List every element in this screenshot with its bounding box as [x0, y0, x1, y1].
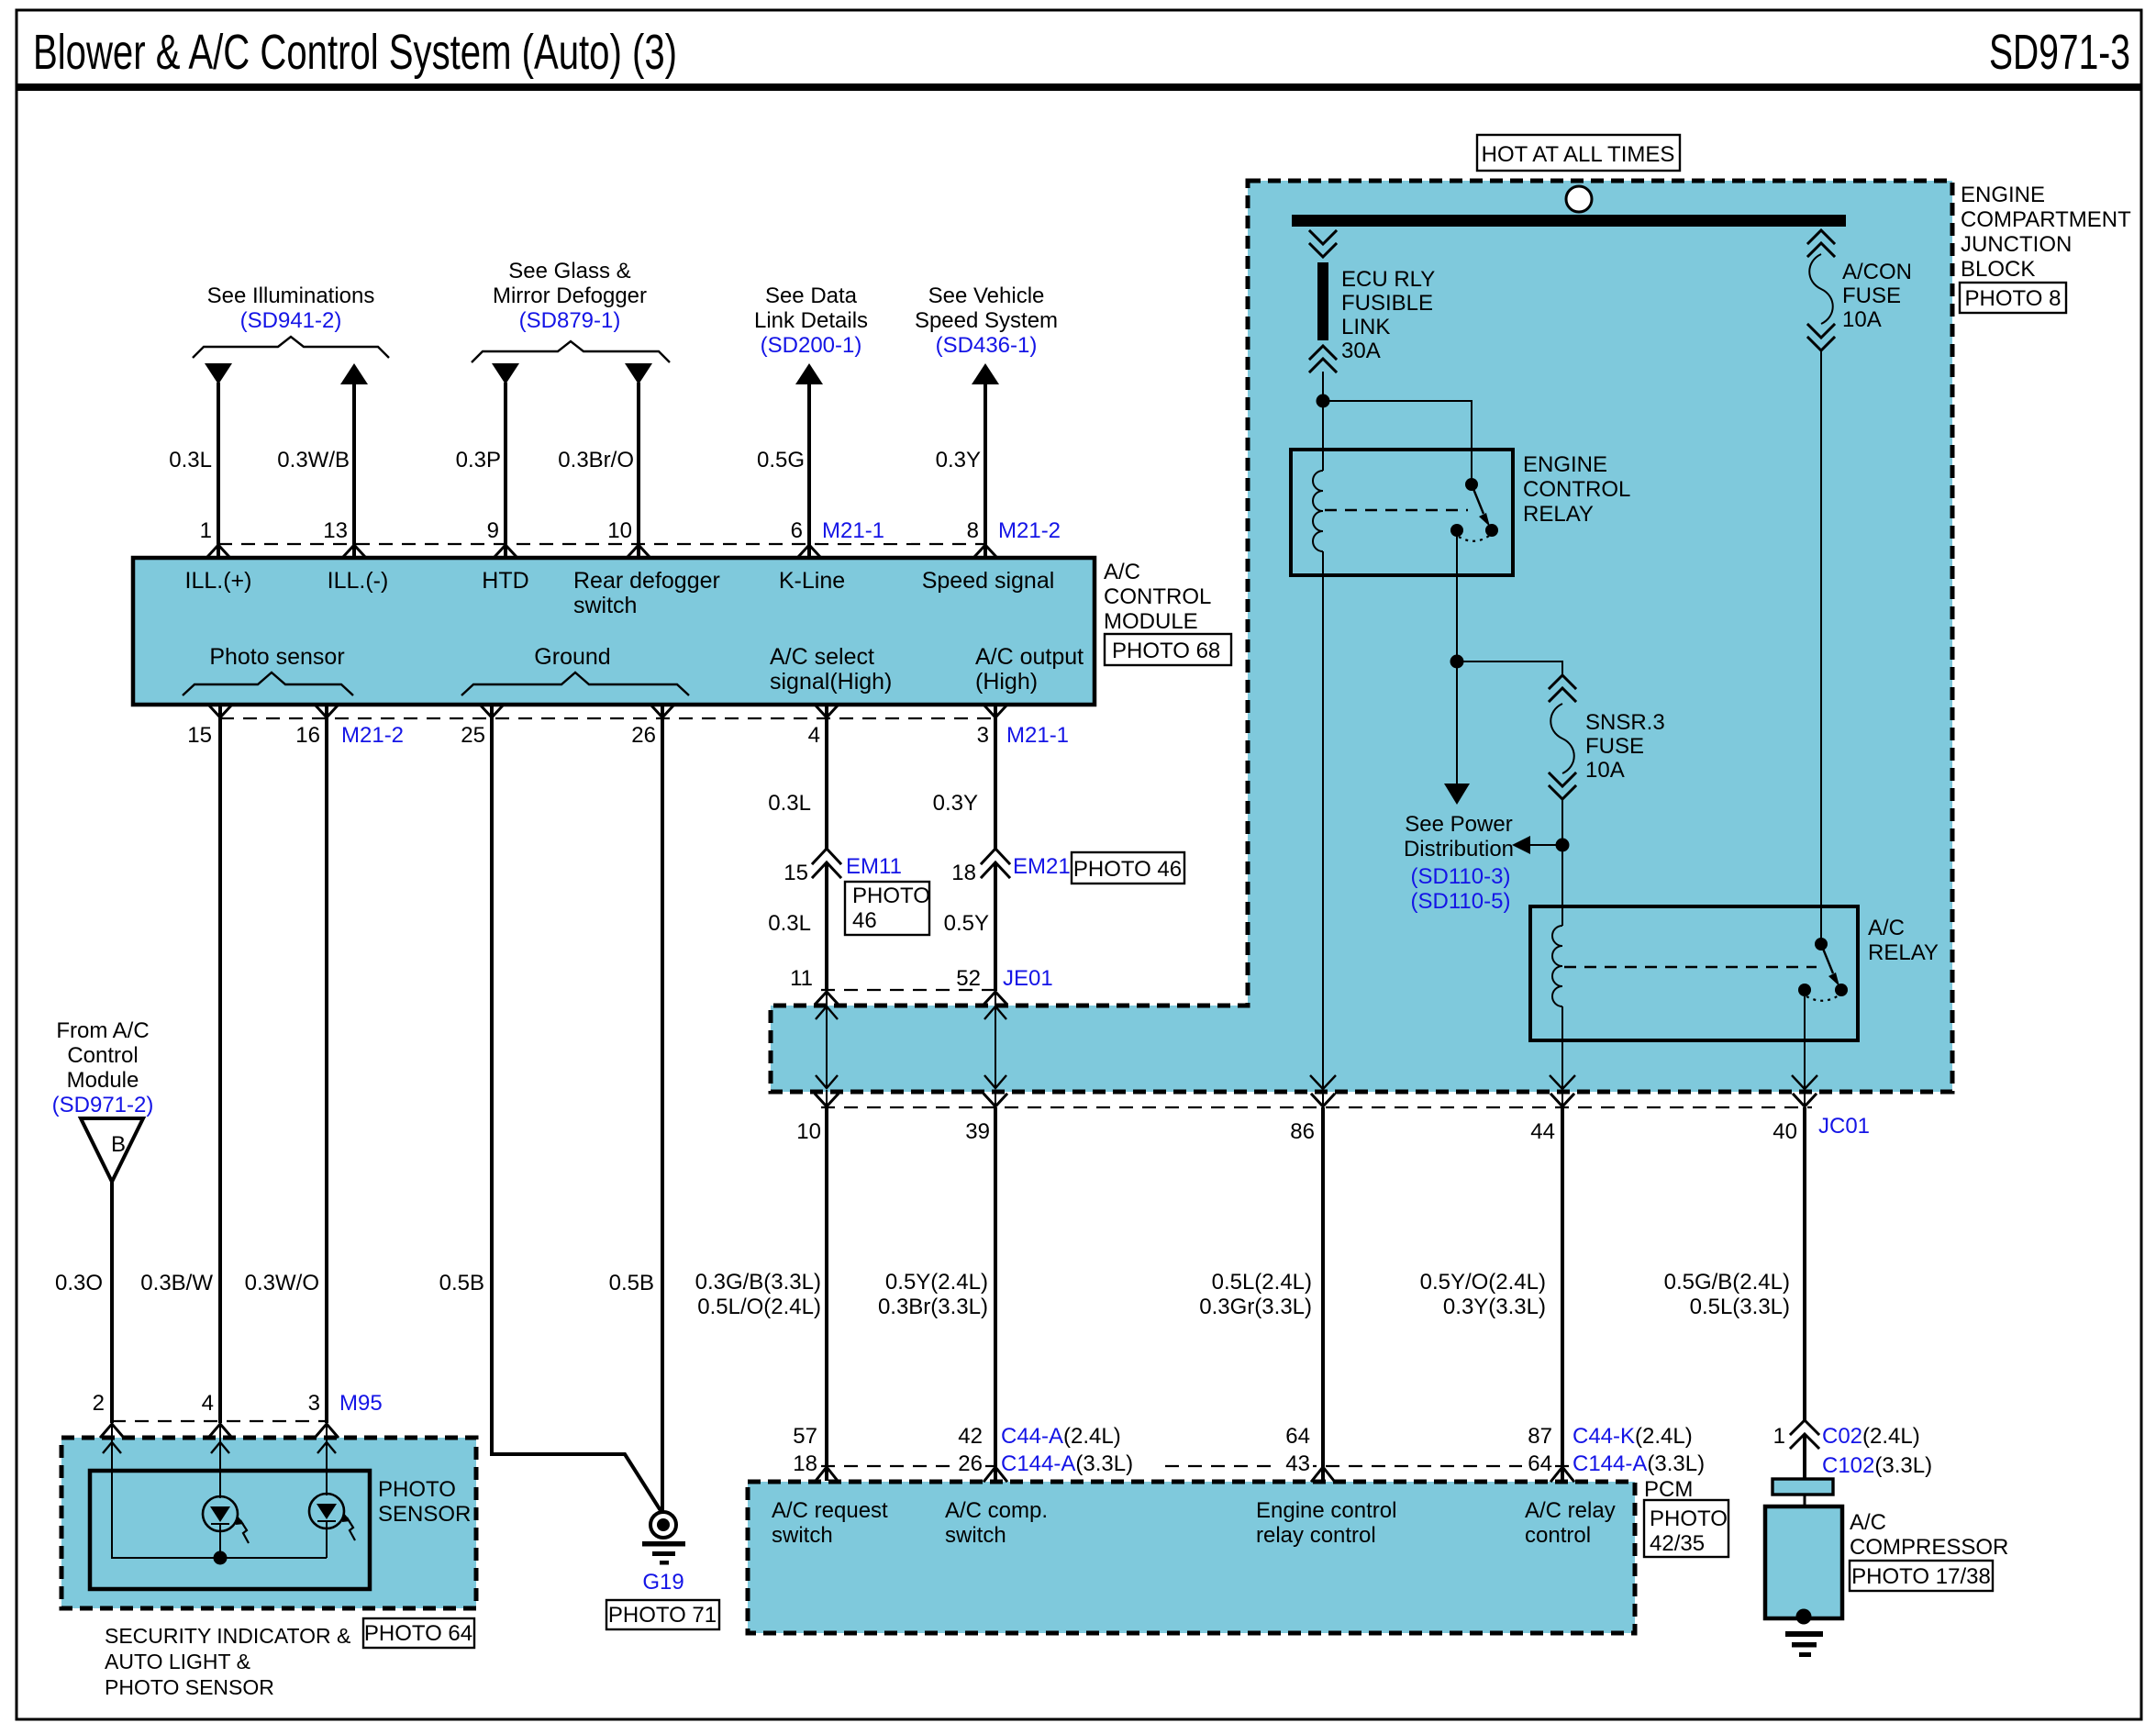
svg-text:3: 3 — [977, 723, 989, 748]
SNSR.3 fuse chevrons bottom — [1550, 773, 1575, 799]
svg-text:C144-A(3.3L): C144-A(3.3L) — [1573, 1451, 1705, 1476]
svg-text:ILL.(-): ILL.(-) — [328, 568, 389, 594]
connector triangle B — [81, 1118, 143, 1182]
PCM label A/C relay control — [1525, 1498, 1616, 1548]
svg-text:PHOTO 68: PHOTO 68 — [1112, 639, 1220, 663]
svg-text:ECU RLY: ECU RLY — [1341, 267, 1435, 292]
wire label 0.3G/B 0.5L/O — [695, 1270, 821, 1319]
svg-text:42: 42 — [958, 1424, 983, 1449]
SNSR.3 fuse label — [1585, 710, 1665, 783]
svg-text:16: 16 — [295, 723, 320, 748]
svg-text:A/C request: A/C request — [772, 1498, 888, 1523]
wire B to photo sensor pin2 — [110, 1182, 114, 1423]
svg-text:CONTROL: CONTROL — [1523, 477, 1630, 502]
svg-text:AUTO LIGHT &: AUTO LIGHT & — [105, 1650, 250, 1673]
wire protector to compressor — [1804, 1495, 1806, 1506]
connector names C44-K C144-A — [1573, 1424, 1705, 1476]
ECR coil — [1313, 471, 1323, 551]
svg-text:Engine control: Engine control — [1256, 1498, 1396, 1523]
module pin label rear defogger switch — [573, 568, 720, 618]
svg-text:86: 86 — [1290, 1119, 1315, 1144]
see data link details reference — [754, 283, 868, 358]
SNSR.3 fuse element — [1550, 704, 1574, 773]
title divider bar — [17, 83, 2141, 91]
svg-text:64: 64 — [1285, 1424, 1310, 1449]
svg-text:4: 4 — [808, 723, 820, 748]
photodiode LED1 — [203, 1496, 249, 1558]
svg-text:LINK: LINK — [1341, 315, 1390, 339]
svg-text:0.3Gr(3.3L): 0.3Gr(3.3L) — [1199, 1295, 1312, 1319]
photo 17/38 box — [1850, 1561, 1993, 1591]
SNSR.3 fuse chevrons top — [1550, 675, 1575, 701]
svg-text:(SD879-1): (SD879-1) — [519, 308, 621, 333]
wire stubs across JC01 edge — [827, 991, 1805, 1107]
svg-text:M21-1: M21-1 — [822, 518, 884, 543]
connector dashed line JC01 — [821, 1106, 1812, 1108]
junction dot power distribution — [1556, 839, 1570, 852]
svg-text:FUSE: FUSE — [1842, 283, 1901, 308]
svg-text:Speed signal: Speed signal — [922, 568, 1055, 594]
junction dot SNSR feed — [1450, 655, 1464, 669]
svg-text:PHOTO: PHOTO — [378, 1477, 456, 1502]
connector names C02 C102 — [1822, 1424, 1932, 1478]
svg-text:4: 4 — [202, 1391, 214, 1416]
svg-text:FUSIBLE: FUSIBLE — [1341, 291, 1433, 316]
svg-text:PHOTO 64: PHOTO 64 — [364, 1621, 472, 1646]
svg-text:15: 15 — [783, 861, 808, 885]
A/C relay box — [1530, 906, 1858, 1040]
svg-text:0.3Br(3.3L): 0.3Br(3.3L) — [878, 1295, 988, 1319]
inner chevron photo sensor pin3 — [317, 1442, 336, 1453]
svg-text:A/CON: A/CON — [1842, 260, 1912, 284]
svg-text:Ground: Ground — [534, 644, 610, 670]
svg-text:0.3P: 0.3P — [456, 448, 501, 472]
svg-text:52: 52 — [956, 966, 981, 991]
junction block feedthrough wire 52-39 — [984, 1006, 1006, 1088]
svg-text:2: 2 — [93, 1391, 105, 1416]
svg-text:1: 1 — [1773, 1424, 1785, 1449]
svg-text:C144-A(3.3L): C144-A(3.3L) — [1001, 1451, 1133, 1476]
svg-text:13: 13 — [323, 518, 348, 543]
svg-text:SD971-3: SD971-3 — [1989, 25, 2130, 80]
chevron PCM pin87 — [1551, 1467, 1573, 1481]
svg-text:10: 10 — [607, 518, 632, 543]
svg-text:0.5Y: 0.5Y — [944, 911, 989, 936]
A/CON fuse label — [1842, 260, 1912, 332]
svg-text:Speed System: Speed System — [915, 308, 1058, 333]
power feed circle — [1566, 186, 1592, 212]
see glass & mirror defogger reference — [493, 259, 647, 333]
arrow down pin1 — [205, 363, 232, 384]
svg-text:18: 18 — [951, 861, 976, 885]
chevron JC01 pin40 — [1794, 1095, 1816, 1106]
photodiode LED2 — [309, 1494, 355, 1558]
svg-text:6: 6 — [791, 518, 803, 543]
PCM label A/C comp switch — [945, 1498, 1048, 1548]
svg-text:See Glass &: See Glass & — [508, 259, 630, 283]
svg-text:M21-2: M21-2 — [341, 723, 404, 748]
svg-text:C44-K(2.4L): C44-K(2.4L) — [1573, 1424, 1693, 1449]
svg-text:From A/C: From A/C — [56, 1018, 149, 1043]
svg-text:Module: Module — [67, 1068, 139, 1093]
A/C relay coil — [1552, 926, 1562, 1006]
connector EM21 chevrons — [982, 849, 1009, 877]
thermal protector — [1773, 1479, 1833, 1495]
svg-text:0.3W/O: 0.3W/O — [245, 1271, 319, 1295]
svg-text:switch: switch — [772, 1523, 833, 1548]
svg-text:0.5B: 0.5B — [439, 1271, 484, 1295]
photo 68 box — [1105, 634, 1231, 665]
connector dashed line PCM — [821, 1465, 1569, 1467]
from A/C control module reference — [52, 1018, 154, 1117]
svg-text:BLOCK: BLOCK — [1961, 257, 2035, 282]
svg-text:(SD200-1): (SD200-1) — [761, 333, 862, 358]
svg-text:See Illuminations: See Illuminations — [207, 283, 375, 308]
svg-text:0.3Y(3.3L): 0.3Y(3.3L) — [1443, 1295, 1546, 1319]
svg-text:K-Line: K-Line — [779, 568, 845, 594]
pin numbers 64 43 — [1285, 1424, 1310, 1476]
svg-text:COMPRESSOR: COMPRESSOR — [1850, 1535, 2008, 1560]
svg-text:1: 1 — [200, 518, 212, 543]
chevron M95 pin4 — [209, 1424, 231, 1437]
photo sensor unit box (dashed cyan) — [61, 1438, 476, 1608]
svg-text:A/C output: A/C output — [975, 644, 1084, 670]
chevron JE01 pin52 — [984, 992, 1006, 1004]
svg-text:0.5Y/O(2.4L): 0.5Y/O(2.4L) — [1420, 1270, 1546, 1295]
svg-text:0.3Y: 0.3Y — [936, 448, 981, 472]
A/CON fuse chevrons top — [1808, 230, 1834, 256]
svg-text:JC01: JC01 — [1818, 1114, 1870, 1139]
svg-text:M95: M95 — [339, 1391, 383, 1416]
svg-text:MODULE: MODULE — [1104, 609, 1198, 634]
svg-text:EM21: EM21 — [1013, 854, 1071, 879]
wire junction to power distribution arrow — [1456, 661, 1458, 784]
svg-text:18: 18 — [793, 1451, 817, 1476]
svg-text:A/C relay: A/C relay — [1525, 1498, 1616, 1523]
photo 71 box — [606, 1600, 719, 1629]
svg-text:26: 26 — [631, 723, 656, 748]
PCM label A/C request switch — [772, 1498, 888, 1548]
chevron pin9 — [495, 545, 517, 557]
module side label A/C CONTROL MODULE — [1104, 560, 1211, 634]
svg-text:CONTROL: CONTROL — [1104, 584, 1211, 609]
power bus bar — [1292, 215, 1846, 227]
ECU RLY fusible link chevrons bottom — [1310, 346, 1336, 372]
svg-text:PHOTO: PHOTO — [852, 884, 930, 908]
wire pin2 inside sensor — [112, 1438, 327, 1558]
ECU RLY fusible link label — [1341, 267, 1435, 363]
wire 10 to PCM pin57 — [825, 1107, 828, 1481]
wire 44 to PCM pin87 — [1561, 1107, 1564, 1481]
A/CON fuse chevrons bottom — [1808, 325, 1834, 350]
svg-text:0.3Y: 0.3Y — [933, 791, 978, 816]
wire A/C relay contact to pin40 — [1804, 996, 1806, 1088]
chevron PCM pin42 — [984, 1467, 1006, 1481]
svg-text:SNSR.3: SNSR.3 — [1585, 710, 1665, 735]
svg-text:relay control: relay control — [1256, 1523, 1376, 1548]
photo sensor label — [378, 1477, 471, 1527]
arrow down pin10 — [625, 363, 652, 384]
svg-text:64: 64 — [1528, 1451, 1552, 1476]
connector names C44-A C144-A — [1001, 1424, 1133, 1476]
svg-text:HTD: HTD — [482, 568, 528, 594]
wire module pin16 to M95 pin3 — [325, 705, 328, 1423]
svg-text:0.3L: 0.3L — [768, 791, 811, 816]
svg-text:RELAY: RELAY — [1868, 940, 1939, 965]
chevron PCM pin64 — [1312, 1467, 1334, 1481]
photo 46 box EM11 — [845, 882, 930, 935]
svg-text:0.3L: 0.3L — [768, 911, 811, 936]
arrow wire40 at block edge — [1792, 1075, 1817, 1089]
svg-text:Mirror Defogger: Mirror Defogger — [493, 283, 647, 308]
svg-text:25: 25 — [461, 723, 485, 748]
svg-text:30A: 30A — [1341, 339, 1381, 363]
A/C relay internal dashed line — [1564, 966, 1817, 968]
svg-text:0.3W/B: 0.3W/B — [277, 448, 350, 472]
svg-text:JUNCTION: JUNCTION — [1961, 232, 2072, 257]
A/C relay label — [1868, 916, 1939, 965]
svg-text:0.3L: 0.3L — [169, 448, 212, 472]
svg-text:SENSOR: SENSOR — [378, 1502, 471, 1527]
chevron pin6 — [798, 545, 820, 557]
arrow down pin9 — [492, 363, 519, 384]
svg-text:Blower & A/C Control System (A: Blower & A/C Control System (Auto) (3) — [33, 25, 677, 80]
svg-text:A/C comp.: A/C comp. — [945, 1498, 1048, 1523]
svg-text:M21-1: M21-1 — [1006, 723, 1069, 748]
svg-text:A/C: A/C — [1104, 560, 1140, 584]
wire pin1 ILL(+) — [217, 383, 220, 557]
chevron pin8 — [974, 545, 996, 557]
svg-text:C44-A(2.4L): C44-A(2.4L) — [1001, 1424, 1121, 1449]
chevron JC01 pin44 — [1551, 1095, 1573, 1106]
chevron pin10 — [628, 545, 650, 557]
wire pin9 HTD — [504, 383, 507, 557]
chevron JE01 pin11 — [816, 992, 838, 1004]
A/C relay switch — [1798, 938, 1848, 1001]
photo 8 box — [1960, 283, 2066, 313]
svg-text:control: control — [1525, 1523, 1591, 1548]
svg-text:A/C: A/C — [1850, 1510, 1886, 1535]
svg-text:(High): (High) — [975, 669, 1038, 695]
wire module pin3 to EM21 — [994, 705, 997, 850]
compressor ground symbol — [1785, 1631, 1823, 1657]
wire ECR contact down to junction — [1456, 530, 1458, 661]
svg-text:PHOTO SENSOR: PHOTO SENSOR — [105, 1675, 274, 1699]
wire ECR coil to pin86 — [1322, 551, 1324, 1088]
ECR internal dashed line — [1325, 509, 1468, 511]
module label A/C select signal(High) — [770, 644, 892, 695]
svg-text:SECURITY INDICATOR &: SECURITY INDICATOR & — [105, 1624, 350, 1648]
connector dashed line M21 top — [218, 543, 985, 545]
svg-text:0.5L(2.4L): 0.5L(2.4L) — [1212, 1270, 1312, 1295]
module label A/C output (High) — [975, 644, 1084, 695]
chevron pin3 — [984, 706, 1006, 717]
PCM label engine control relay control — [1256, 1498, 1396, 1548]
svg-text:Control: Control — [67, 1043, 138, 1068]
wire module pin26 ground 0.5B — [661, 705, 664, 1511]
pin numbers 87 64 — [1528, 1424, 1552, 1476]
svg-text:See Vehicle: See Vehicle — [928, 283, 1045, 308]
wire module pin4 to EM11 — [825, 705, 828, 850]
svg-text:43: 43 — [1285, 1451, 1310, 1476]
svg-text:40: 40 — [1773, 1119, 1797, 1144]
svg-text:JE01: JE01 — [1003, 966, 1053, 991]
svg-text:0.3B/W: 0.3B/W — [140, 1271, 213, 1295]
svg-text:A/C: A/C — [1868, 916, 1905, 940]
svg-text:57: 57 — [793, 1424, 817, 1449]
brace photo sensor — [183, 672, 353, 695]
svg-text:PCM: PCM — [1644, 1477, 1693, 1502]
photo 46 box EM21 — [1072, 852, 1184, 884]
wire module pin15 to M95 pin4 — [218, 705, 222, 1423]
svg-text:15: 15 — [187, 723, 212, 748]
svg-text:Photo sensor: Photo sensor — [209, 644, 344, 670]
svg-text:RELAY: RELAY — [1523, 502, 1594, 527]
wire junction to SNSR fuse — [1457, 661, 1562, 677]
wire junction to ECR switch — [1323, 401, 1472, 479]
svg-text:See Power: See Power — [1405, 812, 1512, 837]
see illuminations reference — [207, 283, 375, 333]
engine compartment junction block label — [1961, 183, 2131, 282]
svg-text:COMPARTMENT: COMPARTMENT — [1961, 207, 2131, 232]
svg-text:Rear defogger: Rear defogger — [573, 568, 720, 594]
svg-text:PHOTO: PHOTO — [1650, 1506, 1728, 1531]
svg-text:42/35: 42/35 — [1650, 1531, 1705, 1556]
arrow wire86 at block edge — [1310, 1075, 1336, 1089]
svg-text:0.5G/B(2.4L): 0.5G/B(2.4L) — [1664, 1270, 1790, 1295]
connector C02 chevrons — [1791, 1420, 1818, 1448]
wire A/CON fuse to A/C relay switch — [1820, 350, 1822, 944]
svg-text:26: 26 — [958, 1451, 983, 1476]
photo sensor inner box — [90, 1471, 370, 1589]
wire EM21 to JE01 pin52 — [994, 864, 997, 991]
svg-text:G19: G19 — [642, 1570, 683, 1595]
svg-text:PHOTO 71: PHOTO 71 — [608, 1603, 717, 1628]
svg-text:PHOTO 46: PHOTO 46 — [1073, 857, 1182, 882]
wire 40 to compressor connector — [1803, 1107, 1806, 1420]
engine control relay box — [1291, 450, 1513, 575]
svg-text:ENGINE: ENGINE — [1961, 183, 2045, 207]
svg-text:0.3O: 0.3O — [55, 1271, 103, 1295]
svg-text:87: 87 — [1528, 1424, 1552, 1449]
svg-text:ENGINE: ENGINE — [1523, 452, 1607, 477]
A/CON fuse element — [1809, 254, 1833, 324]
junction dot LED1 to bus — [214, 1551, 228, 1565]
arrow up pin8 — [972, 363, 999, 384]
arrow up pin13 — [340, 363, 368, 384]
wire pin6 K-line — [807, 383, 811, 557]
svg-text:switch: switch — [573, 593, 637, 618]
inner chevron photo sensor pin2 — [103, 1442, 121, 1453]
svg-text:signal(High): signal(High) — [770, 669, 892, 695]
chevron pin1 — [207, 545, 229, 557]
svg-text:C102(3.3L): C102(3.3L) — [1822, 1453, 1932, 1478]
svg-text:C02(2.4L): C02(2.4L) — [1822, 1424, 1920, 1449]
svg-text:FUSE: FUSE — [1585, 734, 1644, 759]
svg-text:9: 9 — [487, 518, 499, 543]
connector EM11 chevrons — [813, 849, 840, 877]
svg-text:(SD110-5): (SD110-5) — [1411, 889, 1511, 914]
chevron M95 pin3 — [316, 1424, 338, 1437]
chevron JC01 pin86 — [1312, 1095, 1334, 1106]
svg-text:Distribution: Distribution — [1404, 837, 1514, 861]
photo 42/35 box — [1644, 1500, 1728, 1557]
svg-text:44: 44 — [1530, 1119, 1555, 1144]
svg-text:ILL.(+): ILL.(+) — [185, 568, 252, 594]
svg-text:(SD110-3): (SD110-3) — [1411, 864, 1511, 889]
svg-text:0.3G/B(3.3L): 0.3G/B(3.3L) — [695, 1270, 821, 1295]
svg-text:10A: 10A — [1842, 307, 1882, 332]
junction block feedthrough wire 11-10 — [816, 1006, 838, 1088]
see vehicle speed system reference — [915, 283, 1058, 358]
svg-text:0.5Y(2.4L): 0.5Y(2.4L) — [885, 1270, 988, 1295]
PCM box (dashed cyan) — [748, 1482, 1635, 1633]
inner chevron photo sensor pin4 — [211, 1442, 229, 1453]
pin numbers 57 18 — [793, 1424, 817, 1476]
svg-text:switch: switch — [945, 1523, 1006, 1548]
chevron pin13 — [343, 545, 365, 557]
svg-text:11: 11 — [790, 966, 813, 991]
wire label 0.5Y/O 0.3Y — [1420, 1270, 1546, 1319]
connector dashed line M21 bottom — [220, 717, 995, 719]
chevron M95 pin2 — [101, 1424, 123, 1437]
chevron PCM pin57 — [816, 1467, 838, 1481]
arrow wire44 at block edge — [1550, 1075, 1575, 1089]
svg-text:10: 10 — [796, 1119, 821, 1144]
chevron pin15 — [209, 706, 231, 717]
wire pin8 speed signal — [984, 383, 987, 557]
wire 86 to PCM pin64 — [1321, 1107, 1325, 1481]
svg-text:0.5L/O(2.4L): 0.5L/O(2.4L) — [697, 1295, 821, 1319]
wire label 0.5G/B 0.5L — [1664, 1270, 1790, 1319]
hot at all times box — [1477, 135, 1680, 171]
svg-text:(SD436-1): (SD436-1) — [936, 333, 1038, 358]
svg-text:(SD941-2): (SD941-2) — [240, 308, 342, 333]
svg-text:(SD971-2): (SD971-2) — [52, 1093, 154, 1117]
arrow up pin6 — [795, 363, 823, 384]
wire pin13 ILL(-) — [352, 383, 356, 557]
svg-text:A/C select: A/C select — [770, 644, 874, 670]
arrow down power distribution — [1444, 784, 1470, 805]
svg-text:0.3Br/O: 0.3Br/O — [558, 448, 634, 472]
svg-text:0.5B: 0.5B — [609, 1271, 654, 1295]
engine compartment junction block (cyan L-shaped dashed region) — [771, 181, 1952, 1092]
wire pin10 rear defogger — [637, 383, 640, 557]
ground G19 symbol — [642, 1512, 685, 1565]
connector dashed line M95 — [112, 1420, 328, 1422]
svg-text:10A: 10A — [1585, 758, 1625, 783]
photo 64 box — [363, 1618, 474, 1648]
svg-text:0.5G: 0.5G — [757, 448, 805, 472]
wire EM11 to JE01 pin11 — [825, 864, 828, 991]
svg-text:PHOTO 8: PHOTO 8 — [1965, 286, 2062, 311]
ECU RLY fusible link 30A — [1317, 262, 1328, 340]
chevron pin26 — [651, 706, 673, 717]
wire fusible link to ECR coil — [1322, 372, 1324, 471]
wire pin3 into LED2 — [326, 1438, 328, 1495]
svg-text:HOT AT ALL TIMES: HOT AT ALL TIMES — [1482, 142, 1675, 167]
ECU RLY fusible link chevrons top — [1310, 231, 1336, 257]
svg-text:EM11: EM11 — [846, 854, 902, 879]
ECR switch — [1450, 478, 1498, 541]
chevron pin25 — [481, 706, 503, 717]
svg-text:B: B — [111, 1132, 126, 1157]
brace illuminations — [193, 337, 389, 358]
wire stubs across M95 into sensor box — [112, 1423, 327, 1442]
brace ground — [461, 672, 689, 695]
security indicator unit label — [105, 1624, 350, 1699]
see power distribution reference — [1404, 812, 1514, 914]
